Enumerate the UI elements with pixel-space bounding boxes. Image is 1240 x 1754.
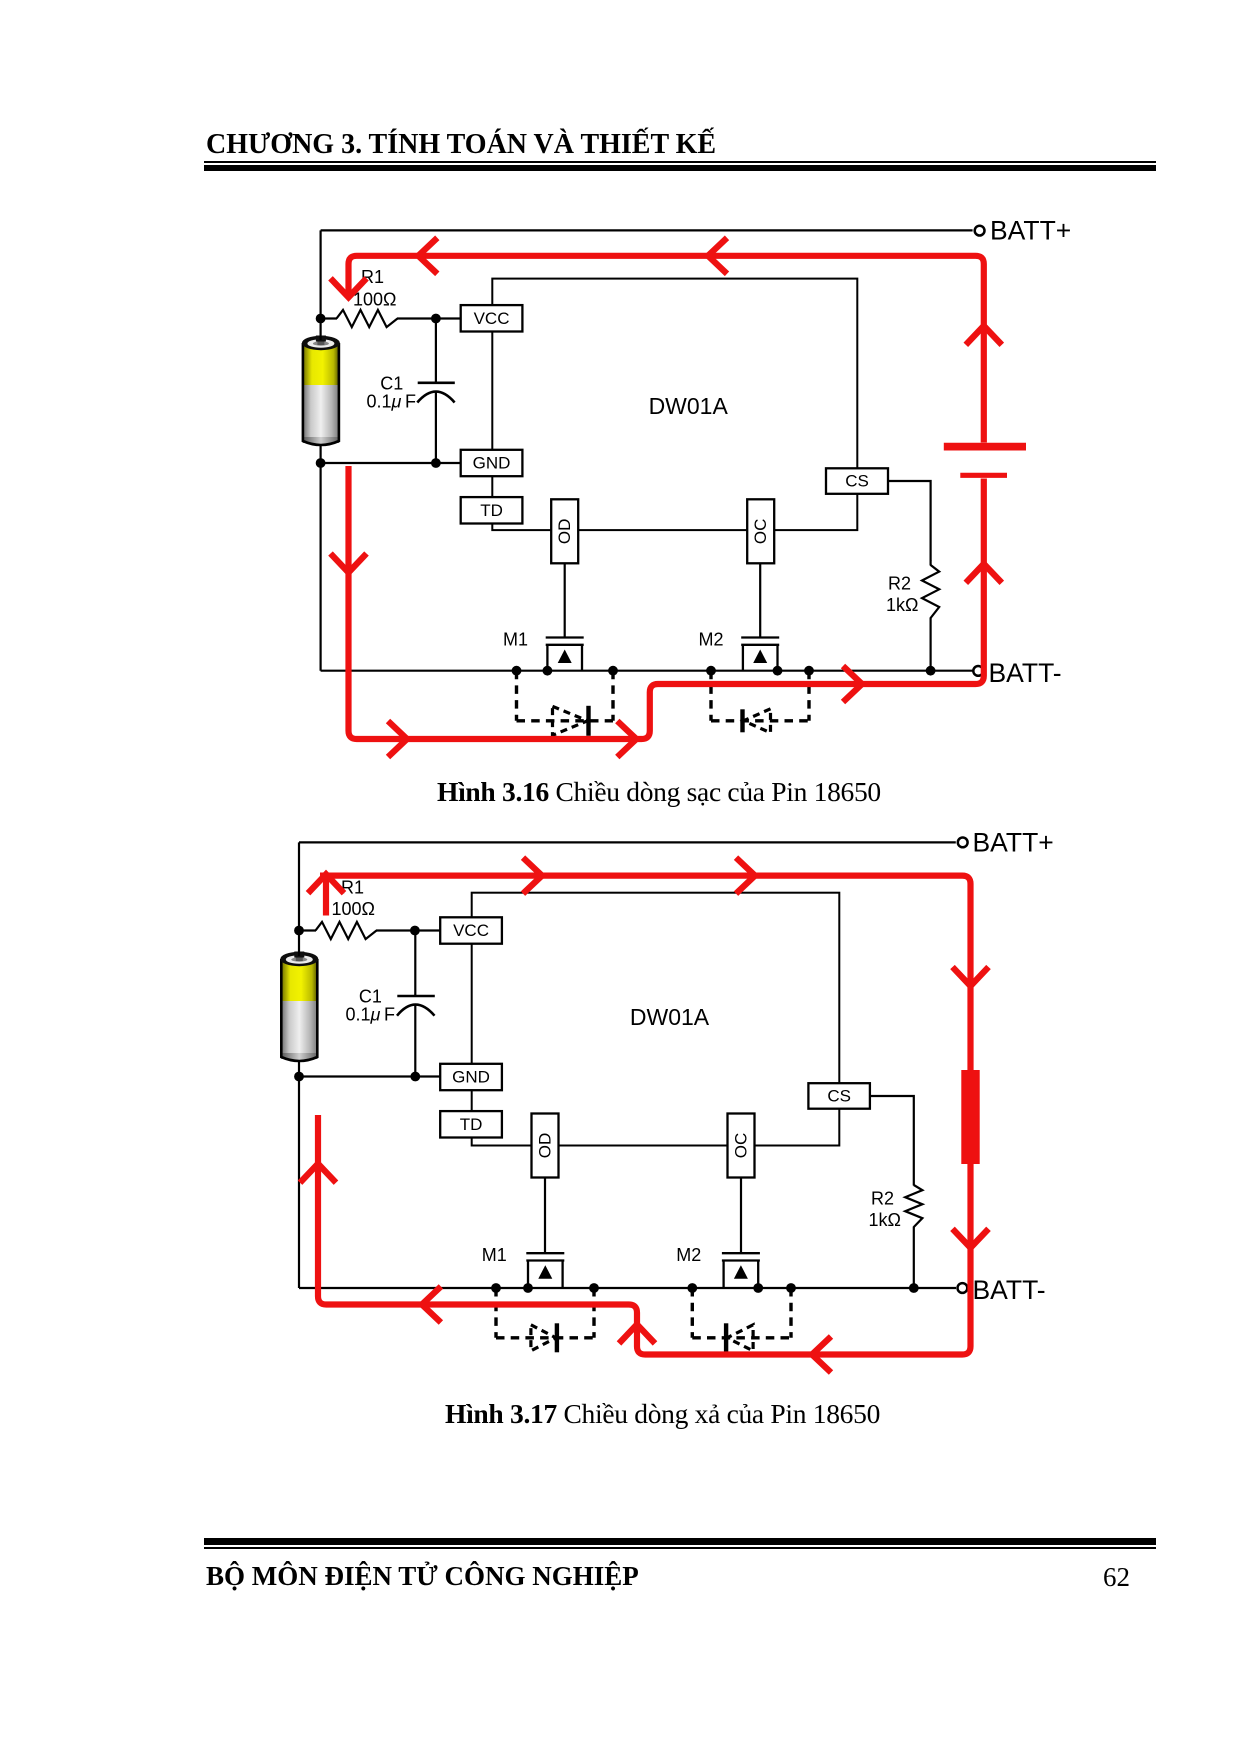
node battery plus bbox=[294, 926, 304, 936]
pin TD bbox=[461, 497, 523, 523]
svg-text:TD: TD bbox=[460, 1115, 483, 1134]
red arrow lower-rail right 3 bbox=[843, 666, 862, 702]
node M1 source stub bbox=[543, 666, 553, 676]
svg-text:C1: C1 bbox=[359, 987, 382, 1007]
wire battery top stub bbox=[298, 931, 300, 957]
node battery minus bbox=[294, 1072, 304, 1082]
transistor M1 bbox=[503, 629, 584, 670]
resistor R2 1kohm bbox=[886, 560, 939, 671]
node M1 right bbox=[589, 1283, 599, 1293]
wire GND rail bbox=[299, 1075, 440, 1077]
red arrow right-vert down 1 bbox=[953, 967, 989, 986]
battery cell B1 bbox=[302, 336, 340, 446]
diode M1 body (dashed) bbox=[496, 1288, 594, 1352]
diode M1 body (dashed) bbox=[517, 671, 614, 736]
red arrow right-vert up 1 bbox=[966, 564, 1002, 583]
resistor R1 100ohm bbox=[299, 878, 415, 939]
pin GND bbox=[440, 1064, 502, 1090]
wire battery top stub bbox=[320, 319, 322, 341]
red arrow lower-rail left 1 bbox=[812, 1337, 831, 1373]
node M2 source stub bbox=[753, 1283, 763, 1293]
svg-text:R2: R2 bbox=[888, 574, 911, 594]
red arrow left-vert down 1 bbox=[331, 278, 367, 297]
node M2 source stub bbox=[773, 666, 783, 676]
transistor M2 bbox=[676, 1245, 760, 1288]
svg-text:0.1μ F: 0.1μ F bbox=[367, 392, 417, 412]
svg-text:M2: M2 bbox=[699, 629, 724, 649]
terminal BATT- bbox=[958, 1275, 1046, 1305]
node M2 left bbox=[687, 1283, 697, 1293]
capacitor C1 0.1uF bbox=[346, 931, 435, 1077]
svg-text:OD: OD bbox=[536, 1133, 555, 1159]
footer rule thick bbox=[204, 1538, 1156, 1545]
battery cell B1 bbox=[280, 952, 318, 1062]
node R1 right / VCC bbox=[431, 314, 441, 324]
svg-text:BATT+: BATT+ bbox=[973, 827, 1054, 857]
svg-text:OC: OC bbox=[732, 1133, 751, 1159]
svg-text:1kΩ: 1kΩ bbox=[869, 1210, 901, 1230]
node M1 right bbox=[608, 666, 618, 676]
footer page number bbox=[1103, 1564, 1130, 1591]
node M2 left bbox=[706, 666, 716, 676]
svg-text:DW01A: DW01A bbox=[649, 393, 729, 419]
node M1 drain bbox=[512, 666, 522, 676]
terminal BATT- bbox=[973, 658, 1061, 688]
wire battery bottom stub bbox=[320, 444, 322, 463]
header chapter title bbox=[206, 131, 716, 159]
svg-text:100Ω: 100Ω bbox=[332, 899, 376, 919]
wire red discharge path main loop bbox=[318, 876, 971, 1355]
node M2 right bbox=[804, 666, 814, 676]
pin OC bbox=[747, 499, 774, 563]
node A (battery + / R1 left) bbox=[316, 314, 326, 324]
svg-text:GND: GND bbox=[452, 1068, 490, 1087]
wire OD to M1 gate bbox=[564, 563, 566, 637]
node M1 drain bbox=[491, 1283, 501, 1293]
transistor M1 bbox=[482, 1245, 565, 1288]
svg-text:OC: OC bbox=[751, 519, 770, 545]
node battery minus bbox=[316, 458, 326, 468]
op IC DW01A bbox=[472, 893, 840, 1146]
node R2 bottom bbox=[926, 666, 936, 676]
op IC DW01A bbox=[492, 279, 857, 530]
svg-text:GND: GND bbox=[473, 454, 511, 473]
red arrow right-vert up 2 bbox=[966, 326, 1002, 345]
header rule thin bbox=[204, 161, 1156, 163]
red arrow stub at R1 bbox=[308, 874, 344, 915]
footer department name bbox=[206, 1563, 639, 1590]
caption figure 3.17 bbox=[445, 1400, 880, 1428]
resistor R2 1kohm bbox=[869, 1181, 923, 1288]
svg-text:BATT-: BATT- bbox=[973, 1275, 1046, 1305]
node M2 right bbox=[786, 1283, 796, 1293]
node C1 bottom / GND bbox=[410, 1072, 420, 1082]
svg-text:BATT+: BATT+ bbox=[990, 215, 1071, 245]
wire top rail to BATT+ bbox=[321, 229, 973, 231]
svg-text:0.1μ F: 0.1μ F bbox=[346, 1005, 396, 1025]
transistor M2 bbox=[699, 629, 780, 670]
pin OD bbox=[551, 499, 578, 563]
svg-text:M1: M1 bbox=[482, 1245, 507, 1265]
svg-text:BATT-: BATT- bbox=[989, 658, 1062, 688]
wire bottom rail to BATT- bbox=[299, 1287, 956, 1289]
svg-text:OD: OD bbox=[555, 519, 574, 545]
pin VCC bbox=[461, 305, 523, 331]
pin OD bbox=[532, 1114, 559, 1178]
red arrow bottom right 1 bbox=[388, 721, 407, 757]
pin OC bbox=[728, 1114, 755, 1178]
red arrow top-rail right 1 bbox=[523, 858, 542, 894]
header rule thick bbox=[204, 165, 1156, 171]
svg-text:M1: M1 bbox=[503, 629, 528, 649]
terminal BATT+ bbox=[975, 215, 1072, 245]
node C1 bottom / GND bbox=[431, 458, 441, 468]
pin TD bbox=[440, 1111, 502, 1137]
red arrow top-rail right 2 bbox=[736, 858, 755, 894]
svg-text:CS: CS bbox=[827, 1086, 851, 1105]
red load resistor block bbox=[961, 1070, 979, 1164]
svg-text:DW01A: DW01A bbox=[630, 1004, 710, 1030]
red arrow top-rail left 1 bbox=[418, 238, 437, 274]
caption figure 3.16 bbox=[437, 778, 881, 806]
wire top rail to BATT+ bbox=[299, 841, 956, 843]
pin GND bbox=[461, 450, 523, 476]
wire to VCC pin bbox=[415, 929, 440, 931]
svg-text:VCC: VCC bbox=[474, 309, 510, 328]
svg-text:R2: R2 bbox=[871, 1189, 894, 1209]
wire to VCC pin bbox=[436, 317, 461, 319]
svg-text:1kΩ: 1kΩ bbox=[886, 595, 918, 615]
footer rule thin bbox=[204, 1547, 1156, 1549]
svg-text:M2: M2 bbox=[676, 1245, 701, 1265]
svg-text:VCC: VCC bbox=[453, 921, 489, 940]
svg-text:TD: TD bbox=[480, 501, 503, 520]
wire left vertical top bbox=[298, 842, 300, 930]
red arrow top-rail left 2 bbox=[708, 238, 727, 274]
wire OD to M1 gate bbox=[544, 1178, 546, 1254]
terminal BATT+ bbox=[958, 827, 1054, 857]
red arrow left-vert up bbox=[300, 1164, 336, 1183]
wire CS to R2 bbox=[870, 1096, 914, 1181]
wire CS to R2 bbox=[888, 481, 931, 561]
red arrow bottom right 2 bbox=[617, 721, 636, 757]
red charger battery short plate bbox=[960, 473, 1007, 478]
pin VCC bbox=[440, 917, 502, 943]
node R1 right / VCC bbox=[410, 926, 420, 936]
red charger battery long plate bbox=[944, 443, 1026, 451]
red arrow upper-rail left 2 bbox=[422, 1287, 441, 1323]
diode M2 body (dashed) bbox=[692, 1288, 791, 1352]
wire OC to M2 gate bbox=[759, 563, 761, 637]
wire bottom rail to BATT- bbox=[321, 670, 973, 672]
red arrow right-vert down 2 bbox=[953, 1229, 989, 1248]
wire OC to M2 gate bbox=[740, 1178, 742, 1254]
diode M2 body (dashed) bbox=[711, 671, 809, 733]
svg-text:CS: CS bbox=[845, 472, 869, 491]
red arrow left-vert down 2 bbox=[331, 554, 367, 573]
svg-text:C1: C1 bbox=[380, 374, 403, 394]
capacitor C1 0.1uF bbox=[367, 319, 455, 464]
pin CS bbox=[808, 1083, 870, 1109]
wire red charge path main loop bbox=[349, 256, 984, 739]
node R2 bottom bbox=[909, 1283, 919, 1293]
resistor R1 100ohm bbox=[321, 267, 436, 327]
wire left vertical lower bbox=[320, 463, 322, 671]
wire battery bottom stub bbox=[298, 1060, 300, 1077]
node battery plus / wire left vertical top bbox=[320, 230, 322, 318]
wire GND rail bbox=[321, 462, 462, 464]
red arrow step up bbox=[619, 1324, 655, 1343]
wire left vertical lower bbox=[298, 1077, 300, 1289]
pin CS bbox=[826, 468, 888, 494]
svg-text:100Ω: 100Ω bbox=[353, 290, 397, 310]
node M1 source stub bbox=[523, 1283, 533, 1293]
svg-text:R1: R1 bbox=[341, 878, 364, 898]
